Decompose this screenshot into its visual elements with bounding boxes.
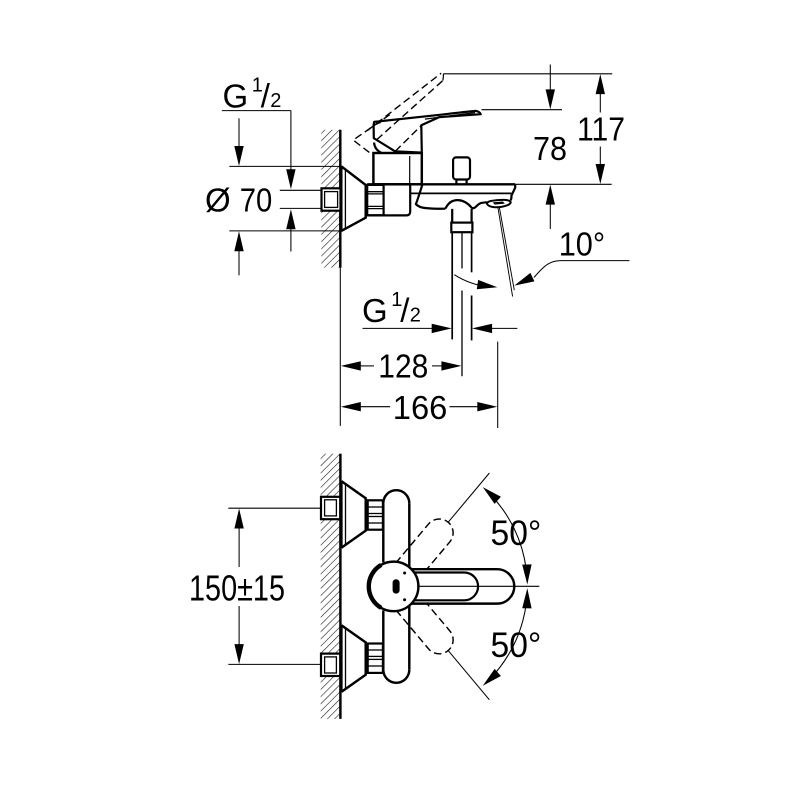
svg-text:78: 78 (533, 130, 567, 167)
dim 150 arrows (234, 509, 243, 529)
svg-text:G: G (223, 77, 249, 114)
wall surface extension line (down to 128/166 dims) (339, 268, 341, 426)
svg-text:117: 117 (577, 111, 625, 148)
upper 50deg arc (490, 494, 527, 570)
escutcheon extension lines (229, 165, 341, 167)
escutcheon (side view) (340, 166, 342, 231)
G1/2 wall nipple square (322, 188, 341, 210)
nipple extension lines (280, 189, 322, 191)
lever hole mark (393, 579, 400, 593)
svg-text:2: 2 (270, 90, 281, 112)
svg-text:G: G (362, 292, 388, 329)
lever (solid) (374, 111, 481, 153)
wall (plan view, hatched) (321, 454, 341, 719)
spray direction lines (498, 207, 513, 297)
svg-text:50°: 50° (491, 626, 542, 665)
lever (plan) inner outline (412, 573, 478, 601)
dim arrows O70 (238, 118, 240, 147)
lever centerline (419, 585, 539, 587)
dim 150 extension lines (228, 507, 321, 509)
hose nut band (451, 223, 472, 233)
wall (side view, hatched) (321, 130, 340, 268)
svg-text:166: 166 (393, 389, 448, 426)
upper 50deg axis extension line (448, 473, 489, 522)
top union square (321, 497, 340, 519)
bottom union square (321, 654, 340, 676)
lever (plan) outer outline (412, 569, 514, 603)
faucet body lower block (409, 185, 411, 212)
shower hose lines (451, 232, 453, 339)
lever raised position (dashed) (367, 73, 441, 130)
svg-text:/: / (400, 292, 410, 329)
dim 166 (341, 402, 361, 411)
deck extension line (515, 183, 611, 185)
dome under lever (374, 143, 381, 153)
faucet body deck line (367, 183, 515, 185)
bottom nut (plan) (368, 644, 383, 673)
cartridge housing cap (373, 153, 421, 184)
svg-text:50°: 50° (491, 514, 542, 553)
svg-text:2: 2 (410, 305, 421, 327)
top escutcheon (plan) (340, 481, 342, 548)
spout right end (510, 184, 515, 200)
lever pivot circle (369, 562, 419, 612)
dim 78 arrows (549, 65, 551, 91)
dim G1/2 bottom arrows (363, 327, 433, 329)
mounting nut (side view) (367, 185, 383, 215)
top nut (plan) (368, 500, 383, 529)
shower hose connector (451, 209, 453, 223)
raised handle top extension line (443, 73, 612, 75)
lever swung down 50deg (dashed) (396, 592, 459, 660)
spout underside curve (416, 185, 446, 209)
lower 50deg arc (490, 604, 527, 680)
lever swung up 50deg (dashed) (396, 513, 459, 581)
svg-text:128: 128 (378, 348, 428, 385)
10-degree swing arc with arrowhead (454, 275, 488, 287)
spout dome over hose connector (445, 200, 487, 209)
svg-text:Ø: Ø (205, 181, 231, 218)
spout flange bottom line (411, 192, 512, 194)
svg-text:/: / (261, 77, 271, 114)
lower 50deg axis extension line (448, 651, 489, 700)
svg-text:70: 70 (240, 181, 272, 218)
dim G1/2 top leader (222, 110, 291, 112)
bottom escutcheon (plan) (340, 625, 342, 692)
dim 117 arrows (596, 74, 605, 94)
spout outlet lip (487, 200, 511, 207)
faucet body tube (plan) (383, 490, 409, 503)
svg-text:150±15: 150±15 (189, 568, 285, 609)
dim 128 (341, 361, 361, 370)
handle top extension line (482, 109, 563, 111)
outlet vertical extension line (497, 342, 499, 428)
dim 10deg leader (534, 261, 629, 278)
svg-text:10°: 10° (559, 225, 606, 262)
diverter knob (453, 157, 470, 179)
